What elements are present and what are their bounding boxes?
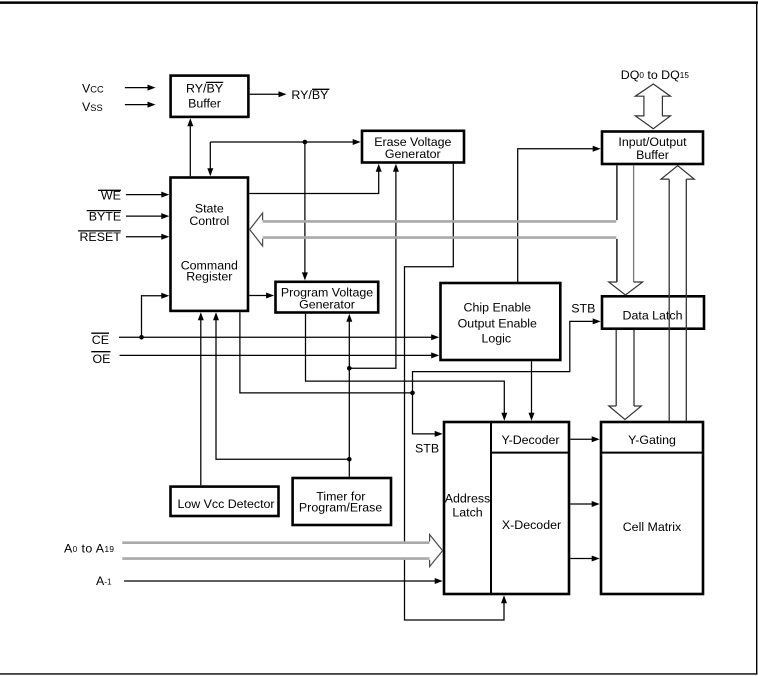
svg-text:Buffer: Buffer	[188, 97, 221, 111]
wire node W1 horizontal y=142	[210, 139, 360, 145]
net label STB (Data Latch)	[571, 302, 595, 316]
svg-text:Control: Control	[189, 214, 229, 228]
page top rule	[0, 1, 758, 4]
svg-text:Output Enable: Output Enable	[458, 316, 537, 330]
pin label BYTE	[87, 210, 121, 224]
wire Command Register to Program Voltage Generator	[249, 293, 274, 299]
svg-text:Address: Address	[445, 491, 490, 505]
wire PVG bottom to Y-Decoder top	[306, 314, 508, 421]
block Low Vcc Detector U8	[171, 487, 279, 516]
svg-text:Low Vcc Detector: Low Vcc Detector	[177, 497, 274, 511]
pin label Vcc	[82, 82, 104, 96]
wire State Control top to RY/BY Buffer	[187, 118, 193, 176]
svg-text:BYTE: BYTE	[89, 210, 121, 224]
svg-text:OE: OE	[92, 352, 110, 366]
svg-text:Generator: Generator	[385, 147, 441, 161]
svg-text:Logic: Logic	[481, 332, 511, 346]
wire Vss arrow	[125, 102, 156, 108]
wire Timer top riser	[348, 368, 350, 476]
hollow arrow Data Latch to Y-Gating	[609, 330, 642, 420]
pin label CE	[91, 333, 109, 347]
wire CE main to Chip Enable logic	[119, 334, 439, 340]
block RY/BY Buffer U1	[171, 76, 249, 117]
svg-text:Buffer: Buffer	[636, 148, 669, 162]
junction Timer tee	[347, 457, 352, 462]
svg-text:RY/BY: RY/BY	[186, 82, 223, 96]
wire Timer riser to PVG bottom	[346, 314, 352, 369]
wire WE to State Control	[126, 192, 169, 198]
svg-text:Program/Erase: Program/Erase	[299, 500, 382, 514]
page right border	[756, 3, 758, 675]
block Program Voltage Generator U4	[276, 282, 379, 313]
wire STB source from Command Register	[240, 312, 413, 393]
svg-text:VCC: VCC	[82, 82, 104, 96]
block Y-Gating / Cell Matrix U11	[601, 422, 703, 594]
pin label WE	[98, 189, 121, 203]
net label STB (Address Latch)	[415, 441, 439, 455]
svg-text:Latch: Latch	[452, 506, 482, 520]
junction Timer to EVG branch	[347, 366, 352, 371]
wire Low Vcc Detector to Command Register bottom	[198, 312, 204, 485]
pin label Vss	[82, 100, 103, 114]
svg-text:CE: CE	[92, 333, 109, 347]
bus I/O Buffer to State Control shaft	[263, 221, 617, 237]
block Timer for Program/Erase U9	[293, 478, 391, 525]
junction W1	[303, 140, 308, 145]
wire Chip Enable logic to Input/Output Buffer	[518, 146, 601, 283]
svg-text:Data Latch: Data Latch	[623, 309, 683, 323]
pin label A-1	[96, 574, 112, 588]
wire RESET to State Control	[126, 234, 169, 240]
hollow arrow Y-Gating to I/O Buffer	[661, 166, 694, 421]
bus A0-A19 shaft	[122, 541, 429, 560]
pin label RY/BY output	[291, 88, 329, 102]
svg-text:RY/BY: RY/BY	[291, 88, 328, 102]
wire Timer riser to Command Register bottom	[213, 312, 349, 459]
wire A-1 to Address Latch	[124, 578, 443, 584]
wire STB to Data Latch	[413, 318, 601, 393]
wire Chip Enable logic to Y-Decoder top	[529, 361, 535, 420]
wire Y-Decoder to Y-Gating	[570, 436, 599, 442]
wire W1 drop to Program Voltage Generator	[302, 142, 308, 280]
wire X-Decoder to Cell Matrix upper	[570, 501, 599, 507]
junction STB	[410, 391, 415, 396]
svg-text:RESET: RESET	[79, 230, 121, 244]
svg-text:DQ0 to DQ15: DQ0 to DQ15	[621, 68, 690, 82]
block Address Latch / Y-Decoder / X-Decoder U10	[444, 422, 569, 594]
block Erase Voltage Generator U3	[362, 131, 464, 163]
wire X-Decoder to Cell Matrix lower	[570, 556, 599, 562]
svg-text:Generator: Generator	[299, 297, 355, 311]
wire STB to Address Latch	[413, 393, 443, 437]
svg-text:Register: Register	[186, 269, 232, 283]
block State Control / Command Register U2	[171, 178, 249, 311]
block Chip Enable Output Enable Logic U5	[441, 283, 561, 360]
junction CE branch	[139, 335, 144, 340]
wire Vcc arrow	[125, 85, 156, 91]
wire W1 drop to State Control top	[207, 142, 213, 176]
pin label RESET	[78, 230, 121, 244]
block Data Latch U7	[602, 296, 704, 328]
svg-text:VSS: VSS	[82, 100, 103, 114]
wire EVG output to X-Decoder bottom	[405, 164, 508, 620]
svg-text:Input/Output: Input/Output	[618, 135, 687, 149]
bidirectional hollow arrow DQ bus	[635, 84, 670, 129]
wire branch to EVG bottom	[349, 164, 399, 368]
svg-text:Cell Matrix: Cell Matrix	[623, 520, 682, 534]
hollow arrow I/O Buffer to Data Latch	[609, 165, 643, 295]
page bottom border	[0, 673, 757, 675]
pin label DQ0 to DQ15	[621, 68, 690, 82]
svg-text:Chip Enable: Chip Enable	[464, 301, 532, 315]
block Input/Output Buffer U6	[602, 132, 703, 165]
svg-text:X-Decoder: X-Decoder	[502, 518, 561, 532]
bus head into State Control	[250, 213, 263, 246]
wire BYTE to State Control	[126, 213, 169, 219]
svg-text:Y-Gating: Y-Gating	[628, 433, 676, 447]
wire RY/BY Buffer output	[250, 91, 287, 97]
wire OE to Chip Enable logic	[120, 352, 440, 358]
bus A0-A19 head into Address Latch	[430, 535, 443, 567]
wire CE branch to Command Register	[142, 293, 170, 338]
wire State Control to Erase Voltage Generator bottom	[249, 164, 381, 194]
bus A0-A19 label	[64, 542, 114, 556]
svg-text:STB: STB	[415, 441, 439, 455]
pin label OE	[91, 352, 110, 366]
svg-text:STB: STB	[571, 302, 595, 316]
svg-text:Y-Decoder: Y-Decoder	[501, 433, 559, 447]
